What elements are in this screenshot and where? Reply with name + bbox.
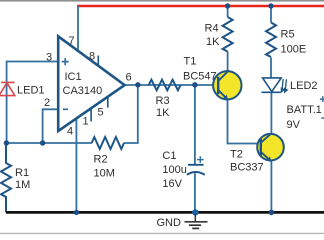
wire pin7 to rail bbox=[77, 6, 79, 50]
svg-text:R1: R1 bbox=[15, 167, 29, 179]
svg-text:R3: R3 bbox=[156, 95, 170, 107]
svg-text:BC547: BC547 bbox=[183, 71, 217, 83]
svg-text:100u: 100u bbox=[162, 164, 186, 176]
wire pin3 input bbox=[7, 62, 58, 144]
svg-text:CA3140: CA3140 bbox=[63, 85, 103, 97]
bottom border line bbox=[0, 233, 324, 234]
svg-text:2: 2 bbox=[44, 97, 50, 109]
resistor R2 bbox=[92, 137, 124, 149]
junction dot rail R5 bbox=[268, 3, 273, 8]
op-amp U1 triangle bbox=[58, 36, 124, 131]
svg-text:6: 6 bbox=[126, 72, 132, 84]
svg-text:3: 3 bbox=[46, 52, 52, 64]
svg-text:T1: T1 bbox=[184, 56, 197, 68]
wire R5 top lead bbox=[270, 6, 272, 23]
LED1 diode symbol bbox=[0, 82, 15, 95]
Q2 emitter arrow bbox=[266, 157, 271, 162]
svg-text:4: 4 bbox=[67, 126, 73, 138]
svg-text:10M: 10M bbox=[94, 168, 115, 180]
svg-text:LED1: LED1 bbox=[17, 85, 45, 97]
C1 plus mark bbox=[197, 156, 204, 163]
svg-text:C1: C1 bbox=[162, 150, 176, 162]
transistor Q1 body bbox=[213, 71, 241, 99]
svg-text:R2: R2 bbox=[94, 154, 108, 166]
wire op-amp output to T1 base bbox=[125, 84, 219, 86]
svg-text:IC1: IC1 bbox=[65, 71, 82, 83]
junction dot gnd symbol bbox=[192, 209, 198, 215]
transistor Q1 symbol bbox=[218, 71, 228, 99]
wire LED2 to T2 collector bbox=[270, 92, 272, 134]
capacitor C1 bbox=[187, 165, 205, 175]
svg-text:1K: 1K bbox=[156, 107, 170, 119]
wire bottom node horizontal bbox=[6, 142, 92, 144]
wire R5 to LED2 bbox=[270, 58, 272, 79]
junction dot T2 emitter ground bbox=[269, 210, 275, 216]
junction dot pin2 node bbox=[40, 140, 45, 145]
svg-text:BC337: BC337 bbox=[230, 162, 264, 174]
junction dot LED1 R1 bbox=[4, 140, 9, 145]
battery minus mark bbox=[321, 117, 324, 119]
svg-text:LED2: LED2 bbox=[290, 80, 318, 92]
svg-text:100E: 100E bbox=[281, 44, 307, 56]
wire pin4 to ground bbox=[75, 117, 77, 212]
svg-text:16V: 16V bbox=[162, 178, 182, 190]
svg-text:7: 7 bbox=[69, 35, 75, 47]
svg-text:1K: 1K bbox=[206, 36, 220, 48]
resistor R5 bbox=[266, 23, 276, 57]
op-amp plus input mark bbox=[62, 58, 69, 65]
svg-text:5: 5 bbox=[98, 107, 104, 119]
pin 5 stub bbox=[107, 97, 109, 108]
resistor R4 bbox=[223, 17, 233, 51]
junction dot pin4 ground bbox=[74, 210, 79, 215]
svg-text:BATT.1: BATT.1 bbox=[287, 104, 322, 116]
wire C1 bottom to ground bbox=[194, 173, 196, 212]
op-amp minus input mark bbox=[63, 108, 68, 110]
battery plus mark bbox=[320, 96, 324, 102]
resistor R3 bbox=[149, 80, 181, 91]
LED2 emission arrows bbox=[281, 79, 287, 92]
svg-text:R4: R4 bbox=[205, 23, 219, 35]
svg-text:8: 8 bbox=[89, 51, 95, 63]
svg-text:1: 1 bbox=[83, 116, 89, 128]
pin 8 stub bbox=[97, 56, 99, 67]
LED2 diode symbol bbox=[262, 78, 282, 92]
transistor Q2 symbol bbox=[261, 134, 271, 161]
V+ red supply rail bbox=[77, 5, 324, 8]
svg-text:R5: R5 bbox=[281, 29, 295, 41]
top border line bbox=[0, 0, 324, 2]
pin 1 stub bbox=[90, 109, 92, 122]
wire node to C1 top bbox=[194, 85, 196, 165]
svg-text:T2: T2 bbox=[230, 149, 243, 161]
svg-text:1M: 1M bbox=[15, 179, 30, 191]
junction dot rail R4 bbox=[225, 3, 230, 8]
junction dot R3 C1 base bbox=[192, 82, 197, 87]
ground symbol GND bbox=[185, 214, 208, 229]
wire T1 emitter to T2 base bbox=[228, 99, 262, 144]
wire pin2 input bbox=[43, 109, 58, 143]
svg-text:GND: GND bbox=[157, 217, 182, 229]
wire R4 top lead bbox=[227, 6, 229, 17]
junction dot pin6 feedback bbox=[135, 82, 140, 87]
wire T2 emitter to ground bbox=[270, 160, 272, 212]
ground rail bbox=[6, 211, 324, 214]
resistor R1 bbox=[1, 143, 11, 212]
Q1 emitter arrow bbox=[223, 95, 228, 100]
wire R4 bottom lead to T1 collector bbox=[227, 52, 229, 73]
wire R2 right to pin6 node bbox=[124, 85, 138, 143]
transistor Q2 body bbox=[257, 134, 284, 161]
svg-text:9V: 9V bbox=[287, 119, 301, 131]
